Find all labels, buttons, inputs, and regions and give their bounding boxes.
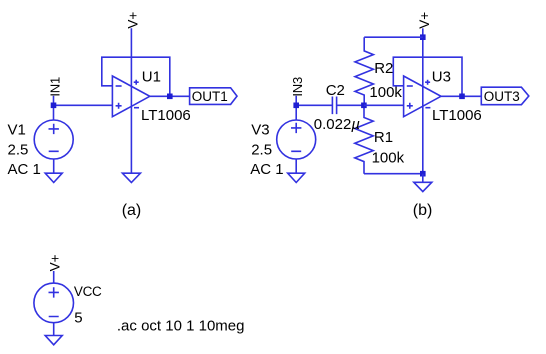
node output junction (a) [167,94,173,100]
op-amp U1 inverting input marker [116,85,122,87]
value 100k (R1) [372,150,405,167]
wire junction to U3 non-inverting input [364,104,404,106]
op-amp U3 inverting input marker [407,85,413,87]
voltage source V3 [277,120,316,159]
ground under op-amp U1 [122,173,140,182]
wire feedback loop U3 output to inverting input [393,57,462,96]
svg-text:OUT3: OUT3 [484,89,520,104]
svg-text:2.5: 2.5 [8,141,29,158]
wire stub to ground (b) [422,174,424,183]
svg-text:V3: V3 [251,121,269,138]
label C2 [326,82,345,99]
svg-text:AC 1: AC 1 [8,161,41,178]
label U3 [432,68,451,85]
node output junction (b) [459,94,465,100]
label U1 [142,68,161,85]
wire bottom rail R1 to ground (b) [364,173,423,175]
svg-text:V1: V1 [8,121,26,138]
caption (b) [413,202,433,219]
svg-text:V+: V+ [417,12,432,29]
label R2 [374,60,393,77]
caption (a) [122,202,142,219]
svg-text:(a): (a) [122,202,142,219]
op-amp U1 V- power pin marker [134,107,139,109]
svg-text:V+: V+ [48,254,63,271]
wire IN3 stub to V3 top [295,96,297,120]
node C2/R1/R2 junction [361,103,367,109]
svg-text:(b): (b) [413,202,433,219]
wire V+ flag to VCC top [53,271,55,283]
value 100k (R2) [369,84,402,101]
label VCC [74,284,102,299]
svg-text:IN3: IN3 [290,77,305,97]
op-amp U3 non-inverting input marker [407,103,413,109]
svg-text:.ac oct 10 1 10meg: .ac oct 10 1 10meg [117,318,245,335]
wire V+ rail through U1 to ground (a) [130,28,132,173]
svg-text:LT1006: LT1006 [432,107,482,124]
svg-text:AC 1: AC 1 [250,161,283,178]
resistor R1 [355,105,373,173]
value LT1006 (U1) [141,107,191,124]
spice directive .ac [117,318,245,335]
svg-text:LT1006: LT1006 [141,107,191,124]
value 0.022u (C2) [314,116,360,133]
svg-text:U1: U1 [142,68,161,85]
voltage source VCC [34,283,74,323]
wire IN1 stub to V1 top [53,96,55,120]
net label IN1 [47,77,62,97]
net flag V+ (b) [417,12,432,29]
svg-text:R2: R2 [374,60,393,77]
wire C2 to junction [337,104,364,106]
svg-text:V+: V+ [126,12,141,29]
wire V+ rail through U3 to bottom rail (b) [422,28,424,173]
wire VCC bottom to ground [53,323,55,336]
op-amp U3 V- power pin marker [425,107,430,109]
node bottom rail junction (b) [420,171,426,177]
svg-text:C2: C2 [326,82,345,99]
value LT1006 (U3) [432,107,482,124]
node IN1 junction [51,103,57,109]
wire feedback loop U1 output to inverting input [102,57,170,96]
wire U1 output to OUT1 [150,95,190,97]
wire IN1 node to non-inverting input [54,104,113,106]
net flag OUT1 [190,88,237,105]
node IN3 junction [293,103,299,109]
wire V3 bottom to ground [295,159,297,173]
value labels V3 2.5 AC 1 [250,121,283,178]
op-amp U3 V+ power pin marker [425,80,430,85]
svg-text:2.5: 2.5 [251,141,272,158]
net flag OUT3 [481,87,529,105]
resistor R2 [355,37,373,105]
node V+/R2 junction [420,34,426,40]
ground under V3 [288,173,305,182]
ground under op-amp U3 [414,182,432,191]
net flag V+ (VCC) [48,254,63,271]
svg-text:100k: 100k [372,150,405,167]
ground under VCC [45,336,62,345]
wire R2 top to V+ rail [364,36,423,38]
capacitor C2 [332,97,336,115]
op-amp U1 non-inverting input marker [116,103,122,109]
value 5 (VCC) [74,310,82,327]
op-amp U1 V+ power pin marker [134,80,139,85]
svg-text:U3: U3 [432,68,451,85]
op-amp U3 triangle [404,76,441,117]
wire IN3 node to C2 [296,104,332,106]
ground under V1 [45,173,62,182]
wire U3 output to OUT3 [441,95,481,97]
net flag V+ (a) [126,12,141,29]
svg-text:IN1: IN1 [47,77,62,97]
svg-text:OUT1: OUT1 [192,89,228,104]
value labels V1 2.5 AC 1 [8,121,41,178]
voltage source V1 [34,120,73,159]
wire V1 bottom to ground [53,159,55,173]
svg-text:5: 5 [74,310,82,327]
svg-text:0.022µ: 0.022µ [314,116,360,133]
svg-text:VCC: VCC [74,284,102,299]
label R1 [374,129,393,146]
op-amp U1 triangle [112,76,149,117]
svg-text:R1: R1 [374,129,393,146]
net label IN3 [290,77,305,97]
